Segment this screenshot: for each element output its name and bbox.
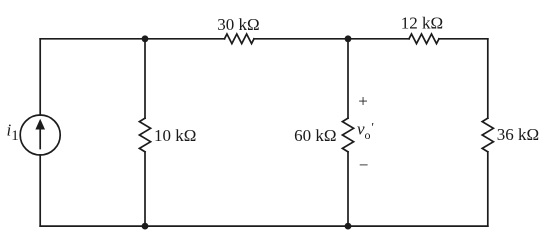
wire vertical at node A top lead (144, 39, 146, 118)
svg-text:10 kΩ: 10 kΩ (154, 126, 196, 145)
wire right rail top lead (487, 39, 489, 118)
current source arrow shaft (39, 128, 41, 149)
resistor R 36k (vertical zigzag) (482, 118, 493, 152)
resistor R 10k (vertical zigzag) (139, 118, 150, 152)
wire vertical at node A bottom lead (144, 152, 146, 226)
svg-text:−: − (359, 156, 369, 175)
svg-text:60 kΩ: 60 kΩ (294, 126, 336, 145)
svg-text:+: + (358, 92, 368, 111)
svg-text:36 kΩ: 36 kΩ (497, 125, 539, 144)
node B junction dot top (345, 35, 352, 42)
wire vertical at node B top lead (347, 39, 349, 118)
wire top rail middle segment (30k to 12k) (254, 38, 409, 40)
svg-text:vo': vo' (357, 120, 374, 143)
wire top rail left segment (node A to 30k) (40, 38, 224, 40)
wire right rail bottom lead (487, 152, 489, 226)
svg-text:12 kΩ: 12 kΩ (401, 14, 443, 33)
resistor R 30k (horizontal zigzag) (225, 34, 254, 44)
resistor R 60k (vertical zigzag) (342, 118, 353, 152)
current source arrow head (35, 119, 45, 130)
node A junction dot bottom (142, 223, 149, 230)
wire top rail right segment (12k to top-right corner) (439, 38, 488, 40)
svg-text:i1: i1 (7, 121, 19, 145)
wire left rail top lead (corner to current source) (39, 39, 41, 115)
current source i1 circle (20, 115, 60, 155)
node B junction dot bottom (345, 223, 352, 230)
resistor R 12k (horizontal zigzag) (409, 34, 439, 44)
wire bottom rail (40, 225, 488, 227)
wire vertical at node B bottom lead (347, 152, 349, 226)
node A junction dot top (142, 35, 149, 42)
wire left rail bottom lead (current source to bottom rail) (39, 155, 41, 226)
svg-text:30 kΩ: 30 kΩ (217, 15, 259, 34)
